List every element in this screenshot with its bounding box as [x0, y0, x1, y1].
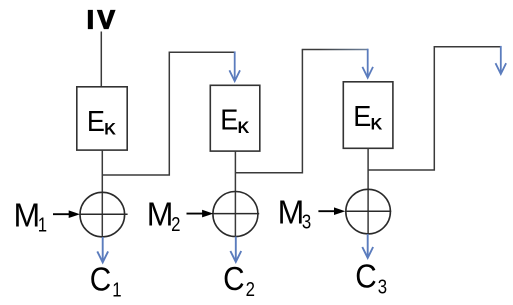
- xor node XOR1: [80, 192, 128, 237]
- M1 input arrow: [53, 210, 80, 218]
- svg-text:E: E: [220, 104, 238, 136]
- E_K2 value label: [220, 104, 249, 138]
- feedback wire 2 tap: [235, 50, 302, 173]
- C1 output arrow: [97, 237, 108, 262]
- feedback arrow 2 into E_K3: [362, 49, 373, 78]
- svg-text:M: M: [147, 196, 174, 233]
- M3 label: [278, 194, 312, 233]
- feedback arrow 1 into E_K2: [229, 51, 240, 81]
- svg-text:K: K: [238, 118, 250, 137]
- svg-text:2: 2: [171, 213, 180, 236]
- feedback arrow 3 output: [496, 46, 507, 74]
- M1 label: [14, 197, 48, 236]
- svg-text:C: C: [90, 261, 111, 298]
- C2 label: [223, 261, 255, 301]
- block cipher E_K3: [343, 82, 393, 149]
- svg-text:1: 1: [38, 213, 47, 236]
- feedback wire 3 tap: [368, 47, 501, 170]
- C3 label: [355, 258, 387, 298]
- svg-text:E: E: [87, 105, 105, 137]
- IV label: [87, 5, 119, 35]
- svg-text:E: E: [353, 100, 371, 132]
- svg-text:C: C: [355, 258, 376, 295]
- xor node XOR3: [346, 189, 391, 234]
- wire IV to E_K1: [100, 32, 102, 87]
- feedback wire 2 top run: [302, 49, 368, 51]
- svg-text:M: M: [14, 197, 41, 234]
- C2 output arrow: [230, 237, 241, 262]
- wire E_K2 to XOR2: [234, 151, 236, 236]
- svg-text:C: C: [223, 261, 244, 298]
- block cipher E_K1: [77, 87, 127, 150]
- svg-text:K: K: [104, 119, 116, 138]
- svg-text:M: M: [278, 194, 305, 231]
- M3 input arrow: [318, 207, 345, 215]
- E_K1 value label: [87, 105, 116, 139]
- xor node XOR2: [213, 192, 259, 237]
- C3 output arrow: [362, 234, 373, 258]
- M2 label: [147, 196, 181, 235]
- C1 label: [90, 261, 122, 301]
- svg-text:1: 1: [112, 278, 121, 301]
- wire E_K1 to XOR1: [101, 150, 103, 237]
- wire E_K3 to XOR3: [367, 148, 369, 234]
- svg-text:3: 3: [302, 210, 311, 233]
- E_K3 value label: [353, 100, 382, 134]
- svg-text:K: K: [371, 114, 383, 133]
- M2 input arrow: [187, 210, 214, 218]
- block cipher E_K2: [210, 85, 259, 151]
- svg-text:IV: IV: [87, 5, 119, 35]
- svg-text:2: 2: [246, 278, 255, 301]
- feedback wire 1 tap: [102, 52, 234, 175]
- svg-text:3: 3: [378, 275, 387, 298]
